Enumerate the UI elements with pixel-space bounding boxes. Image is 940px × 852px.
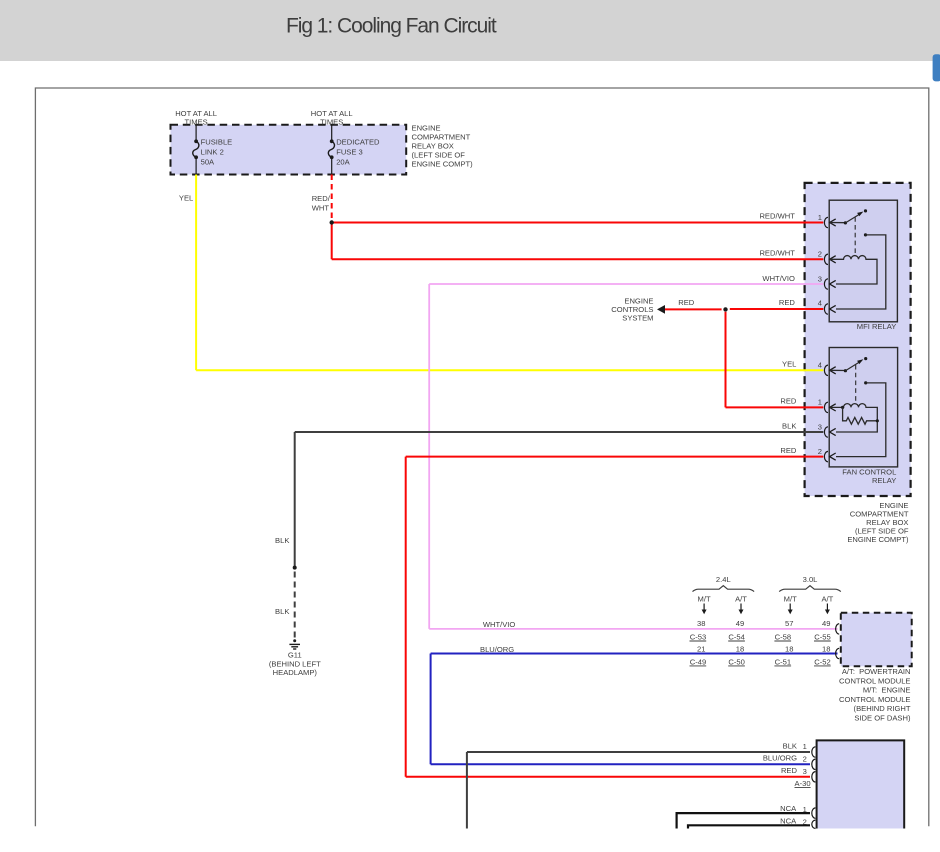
fan relay coil junction dot bbox=[841, 406, 844, 409]
svg-text:50A: 50A bbox=[201, 157, 215, 166]
svg-text:1: 1 bbox=[803, 742, 807, 751]
wire YEL horizontal to fan control relay pin 4 bbox=[196, 369, 823, 371]
svg-text:A/T: A/T bbox=[821, 594, 833, 603]
MFI pin 3 arrow bbox=[830, 280, 836, 287]
MFI switch pivot wire bbox=[830, 222, 846, 224]
fan relay pin 2 arrow bbox=[830, 453, 836, 460]
node junction on RED/WHT bbox=[330, 220, 334, 224]
wire BLK dashed to ground bbox=[294, 572, 296, 639]
arrow column 2 bbox=[740, 604, 742, 611]
relay U2: fan control relay body bbox=[829, 348, 897, 467]
svg-text:49: 49 bbox=[736, 619, 744, 628]
svg-text:M/T: ENGINE: M/T: ENGINE bbox=[863, 686, 911, 695]
svg-text:BLK: BLK bbox=[275, 607, 289, 616]
MFI mechanical link dashed bbox=[854, 217, 856, 256]
A-30 NCA pin 2 arc bbox=[812, 820, 816, 828]
svg-text:Fig 1: Cooling Fan Circuit: Fig 1: Cooling Fan Circuit bbox=[286, 15, 497, 38]
PCM pin arc WHT/VIO bbox=[836, 624, 840, 634]
MFI pin 2 arrow bbox=[830, 256, 836, 263]
resistor junction dot bbox=[876, 419, 879, 422]
fusible link 2 element bbox=[193, 141, 199, 157]
svg-text:2: 2 bbox=[803, 817, 807, 826]
dedicated fuse 3 element bbox=[328, 141, 334, 157]
svg-text:2.4L: 2.4L bbox=[716, 575, 731, 584]
svg-text:DEDICATED: DEDICATED bbox=[336, 138, 380, 147]
fan relay pin 3 arrow bbox=[830, 428, 836, 435]
wire RED/WHT horizontal to MFI relay pin 1 bbox=[332, 222, 824, 224]
svg-text:M/T: M/T bbox=[784, 594, 797, 603]
svg-text:RED/WHT: RED/WHT bbox=[759, 249, 795, 258]
resistor R1 (parallel with coil) bbox=[843, 407, 878, 424]
scrollbar thumb bbox=[933, 54, 940, 81]
ground G11 bbox=[289, 639, 300, 649]
svg-text:CONTROL MODULE: CONTROL MODULE bbox=[839, 676, 910, 685]
svg-text:1: 1 bbox=[803, 805, 807, 814]
MFI pin 3 connector arc bbox=[824, 279, 828, 289]
fan relay switch blade bbox=[845, 362, 859, 371]
A-30 pin 2 arc bbox=[812, 759, 816, 769]
svg-text:RED: RED bbox=[780, 446, 797, 455]
MFI switch blade bbox=[845, 214, 859, 223]
wire WHT/VIO horizontal to PCM connector bbox=[429, 628, 837, 630]
wire RED/WHT dashed vertical from dedicated fuse bbox=[331, 175, 333, 222]
fan relay pin 4 connector arc bbox=[824, 365, 828, 375]
svg-text:WHT: WHT bbox=[312, 204, 330, 213]
svg-text:4: 4 bbox=[818, 361, 822, 370]
svg-text:ENGINE: ENGINE bbox=[412, 124, 441, 133]
label A/T POWERTRAIN CONTROL MODULE M/T ENGINE CONTROL MODULE (BEHIND RIGHT SIDE OF DASH) bbox=[839, 667, 911, 723]
svg-text:G11: G11 bbox=[288, 651, 302, 660]
svg-text:ENGINE COMPT): ENGINE COMPT) bbox=[847, 535, 909, 544]
brace 2.4L bbox=[693, 586, 755, 592]
wire RED horizontal to fan control relay pin 1 bbox=[726, 406, 824, 408]
svg-text:BLK: BLK bbox=[782, 421, 796, 430]
svg-text:C-53: C-53 bbox=[690, 632, 706, 641]
svg-text:RELAY: RELAY bbox=[872, 476, 896, 485]
dedicated fuse 3 lead wires bbox=[331, 125, 333, 142]
wire RED horizontal from fan control relay pin 2 bbox=[406, 456, 824, 458]
svg-text:RED/WHT: RED/WHT bbox=[759, 212, 795, 221]
wire YEL vertical from fusible link bbox=[195, 175, 197, 371]
fan relay coil bbox=[830, 404, 878, 432]
svg-text:18: 18 bbox=[736, 644, 744, 653]
MFI switch blade arrowhead bbox=[857, 212, 863, 217]
svg-text:YEL: YEL bbox=[782, 360, 796, 369]
svg-text:2: 2 bbox=[818, 250, 822, 259]
fan relay pin 3 connector arc bbox=[824, 427, 828, 437]
MFI pin 1 arrow bbox=[830, 219, 836, 226]
fan relay switch pivot dot bbox=[844, 369, 847, 372]
arrow column 4 bbox=[826, 604, 828, 611]
MFI pin 4 connector arc bbox=[824, 304, 828, 314]
fan relay switch pivot wire bbox=[830, 369, 846, 371]
svg-text:NCA: NCA bbox=[780, 804, 797, 813]
fan relay pin 1 connector arc bbox=[824, 402, 828, 412]
svg-text:2: 2 bbox=[803, 755, 807, 764]
svg-text:2: 2 bbox=[818, 447, 822, 456]
wire WHT/VIO horizontal to MFI relay pin 3 bbox=[429, 283, 823, 285]
wire RED vertical down from junction bbox=[725, 312, 727, 408]
wire BLK horizontal to A-30 pin 1 bbox=[467, 751, 810, 753]
svg-text:BLU/ORG: BLU/ORG bbox=[480, 645, 514, 654]
wire RED/WHT vertical stub bbox=[331, 223, 333, 260]
svg-text:WHT/VIO: WHT/VIO bbox=[762, 274, 795, 283]
svg-text:SYSTEM: SYSTEM bbox=[622, 314, 653, 323]
fan motor box NCA wire 2 bbox=[688, 825, 810, 828]
header bar bbox=[0, 0, 940, 61]
svg-text:A/T: POWERTRAIN: A/T: POWERTRAIN bbox=[842, 667, 911, 676]
fan relay switch fixed contact dot bbox=[864, 357, 867, 360]
svg-text:3.0L: 3.0L bbox=[803, 575, 818, 584]
wire RED horizontal to MFI relay pin 4 bbox=[730, 308, 824, 310]
wire BLK vertical to ground bbox=[294, 432, 296, 568]
svg-text:18: 18 bbox=[785, 644, 793, 653]
svg-text:C-58: C-58 bbox=[775, 632, 791, 641]
svg-text:BLU/ORG: BLU/ORG bbox=[763, 754, 797, 763]
fan relay mechanical link dashed bbox=[855, 365, 857, 405]
fusible link 2 lead wires bbox=[195, 125, 197, 142]
svg-text:38: 38 bbox=[697, 619, 705, 628]
fan relay pin 4 arrow bbox=[830, 367, 836, 374]
svg-text:RED/: RED/ bbox=[312, 194, 331, 203]
fan relay pin 1 arrow bbox=[830, 404, 836, 411]
brace 3.0L bbox=[779, 586, 841, 592]
A-30 pin 3 arc bbox=[812, 772, 816, 782]
svg-text:RED: RED bbox=[781, 766, 798, 775]
MFI pin 4 arrow bbox=[830, 305, 836, 312]
engine compartment relay box dashed enclosure (relays) bbox=[805, 183, 911, 496]
connector labels C-49 C-50 C-51 C-52 bbox=[690, 657, 831, 666]
A-30 connector box (radiator fan motor assembly) bbox=[817, 740, 905, 828]
svg-text:3: 3 bbox=[818, 275, 822, 284]
PCM pin arc BLU/ORG bbox=[836, 648, 840, 658]
svg-text:4: 4 bbox=[818, 299, 822, 308]
wire BLU/ORG vertical bbox=[430, 654, 432, 765]
wire RED to engine controls system bbox=[665, 308, 722, 310]
svg-text:RED: RED bbox=[779, 298, 796, 307]
engine controls system arrow bbox=[657, 305, 665, 314]
svg-text:SIDE OF DASH): SIDE OF DASH) bbox=[854, 714, 911, 723]
wire BLK vertical at bottom bbox=[466, 752, 468, 829]
svg-text:1: 1 bbox=[818, 213, 822, 222]
svg-text:M/T: M/T bbox=[698, 594, 711, 603]
MFI contact dot to pin 4 wire bbox=[864, 233, 867, 236]
arrow column 1 bbox=[703, 604, 705, 611]
svg-text:(LEFT SIDE OF: (LEFT SIDE OF bbox=[412, 151, 466, 160]
svg-text:FUSIBLE: FUSIBLE bbox=[201, 138, 233, 147]
svg-text:(BEHIND RIGHT: (BEHIND RIGHT bbox=[854, 704, 911, 713]
A-30 pin 1 arc bbox=[812, 747, 816, 757]
svg-text:CONTROL MODULE: CONTROL MODULE bbox=[839, 695, 910, 704]
svg-text:C-52: C-52 bbox=[814, 657, 830, 666]
MFI switch fixed contact dot bbox=[864, 209, 867, 212]
fan relay pin 2 connector arc bbox=[824, 451, 828, 461]
svg-text:FUSE 3: FUSE 3 bbox=[336, 147, 363, 156]
svg-text:18: 18 bbox=[822, 644, 830, 653]
svg-text:20A: 20A bbox=[336, 157, 350, 166]
svg-text:C-51: C-51 bbox=[775, 657, 791, 666]
A-30 NCA pin 1 arc bbox=[812, 808, 816, 818]
svg-text:BLK: BLK bbox=[783, 741, 797, 750]
svg-text:1: 1 bbox=[818, 398, 822, 407]
fan relay contact dot to pin 2 wire bbox=[864, 381, 867, 384]
svg-text:MFI RELAY: MFI RELAY bbox=[857, 322, 897, 331]
MFI pin 1 connector arc bbox=[824, 217, 828, 227]
PCM / ECM dashed box bbox=[841, 613, 912, 667]
svg-text:49: 49 bbox=[822, 619, 830, 628]
wire RED horizontal to A-30 pin 3 bbox=[406, 776, 810, 778]
wire BLU/ORG horizontal to A-30 pin 2 bbox=[431, 763, 810, 765]
svg-text:A-30: A-30 bbox=[795, 779, 811, 788]
svg-text:C-55: C-55 bbox=[814, 632, 830, 641]
svg-text:RED: RED bbox=[780, 397, 797, 406]
svg-text:C-54: C-54 bbox=[728, 632, 744, 641]
wire BLU/ORG horizontal to PCM connector bbox=[431, 653, 838, 655]
svg-text:NCA: NCA bbox=[780, 816, 797, 825]
svg-text:BLK: BLK bbox=[275, 536, 289, 545]
MFI coil bbox=[830, 256, 877, 284]
arrow column 3 bbox=[789, 604, 791, 611]
svg-text:57: 57 bbox=[785, 619, 793, 628]
wire RED vertical long bbox=[405, 457, 407, 777]
MFI pin 2 connector arc bbox=[824, 254, 828, 264]
svg-text:21: 21 bbox=[697, 644, 705, 653]
wire WHT/VIO vertical bbox=[428, 284, 430, 629]
svg-text:YEL: YEL bbox=[179, 194, 193, 203]
svg-text:C-49: C-49 bbox=[690, 657, 706, 666]
fan relay switch blade arrowhead bbox=[857, 359, 863, 364]
svg-text:COMPARTMENT: COMPARTMENT bbox=[412, 133, 471, 142]
wire RED/WHT horizontal to MFI relay pin 2 bbox=[332, 258, 824, 260]
svg-text:A/T: A/T bbox=[735, 594, 747, 603]
MFI switch pivot dot bbox=[844, 221, 847, 224]
svg-text:C-50: C-50 bbox=[728, 657, 744, 666]
connector labels C-53 C-54 C-58 C-55 bbox=[690, 632, 831, 641]
svg-text:3: 3 bbox=[818, 422, 822, 431]
node junction on RED bbox=[723, 307, 727, 311]
relay U1: MFI relay body bbox=[829, 200, 897, 322]
svg-text:3: 3 bbox=[803, 767, 807, 776]
engine compartment relay box (fuse box) dashed enclosure bbox=[171, 125, 407, 175]
svg-text:ENGINE COMPT): ENGINE COMPT) bbox=[412, 160, 474, 169]
svg-text:LINK 2: LINK 2 bbox=[201, 147, 224, 156]
svg-text:WHT/VIO: WHT/VIO bbox=[483, 620, 516, 629]
fan motor box NCA wire 1 bbox=[677, 813, 810, 828]
svg-text:RELAY BOX: RELAY BOX bbox=[412, 142, 454, 151]
svg-text:HEADLAMP): HEADLAMP) bbox=[273, 668, 318, 677]
svg-text:RED: RED bbox=[678, 298, 695, 307]
node junction on BLK bbox=[293, 566, 297, 570]
wire BLK horizontal from fan control relay pin 3 bbox=[295, 431, 824, 433]
